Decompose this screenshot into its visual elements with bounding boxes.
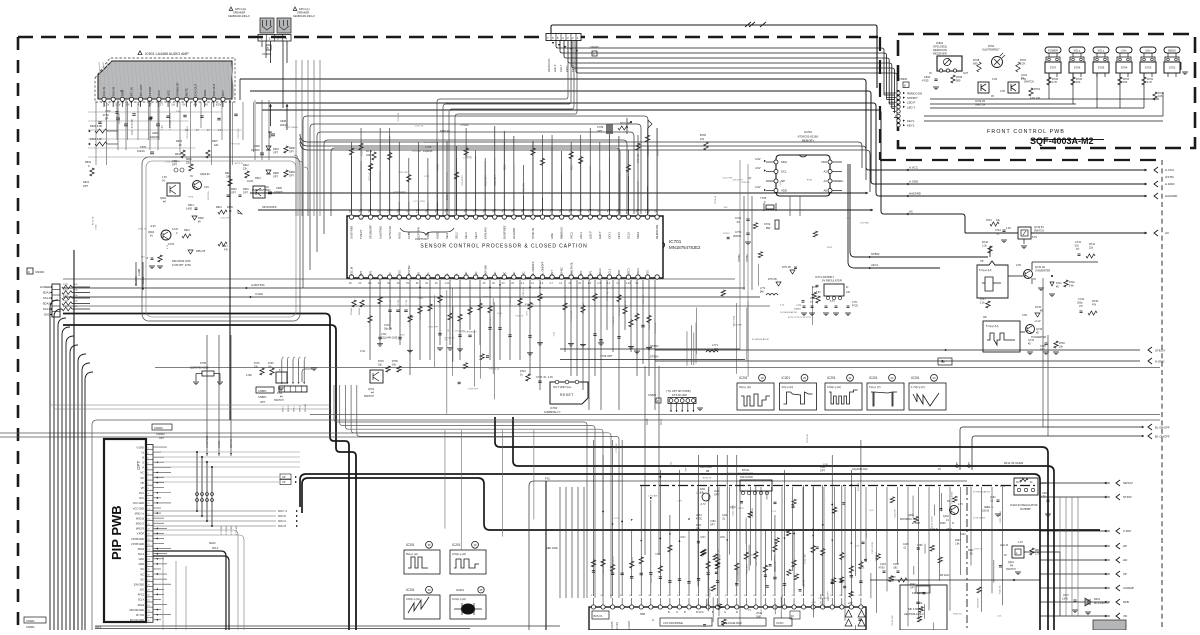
svg-text:22K: 22K [214, 144, 219, 147]
svg-text:OPT: OPT [820, 470, 825, 473]
svg-text:C609: C609 [276, 187, 282, 190]
svg-text:OPT: OPT [260, 400, 266, 404]
svg-text:D902: D902 [505, 164, 507, 170]
svg-text:SEL2: SEL2 [455, 232, 459, 239]
svg-text:C102: C102 [990, 497, 996, 499]
svg-text:S706: S706 [1074, 66, 1081, 70]
svg-text:C169: C169 [710, 521, 716, 523]
svg-text:VCC.GND: VCC.GND [133, 507, 144, 510]
svg-text:-0.8V: -0.8V [150, 225, 156, 228]
svg-text:R736 100: R736 100 [565, 295, 567, 305]
svg-text:D701: D701 [988, 44, 995, 48]
svg-text:CN901: CN901 [26, 625, 35, 629]
svg-text:CVBS: CVBS [407, 231, 411, 239]
svg-text:C134 .082: C134 .082 [892, 615, 894, 626]
svg-text:GND: GND [139, 563, 145, 566]
svg-text:ST813Y: ST813Y [1155, 349, 1166, 353]
svg-text:NC: NC [140, 573, 144, 576]
svg-text:1.4V: 1.4V [1018, 541, 1023, 544]
svg-text:C606: C606 [152, 132, 158, 135]
svg-text:F302: F302 [696, 525, 702, 527]
svg-text:SPC1 (H): SPC1 (H) [235, 7, 246, 11]
svg-text:SCL3: SCL3 [607, 268, 611, 275]
svg-text:SPEAKER: SPEAKER [297, 11, 309, 15]
svg-text:R: R [142, 467, 144, 470]
svg-text:X0: X0 [416, 272, 420, 276]
svg-text:0V: 0V [938, 468, 941, 471]
svg-text:L772 BW: L772 BW [733, 325, 743, 327]
svg-text:DEF GND: DEF GND [546, 546, 558, 550]
svg-text:S705: S705 [1098, 66, 1105, 70]
svg-text:100/16: 100/16 [794, 309, 801, 311]
svg-text:22k: 22k [366, 153, 371, 157]
svg-text:SVS/THE9: SVS/THE9 [350, 226, 354, 239]
svg-text:C105: C105 [903, 544, 909, 546]
svg-text:.47/50: .47/50 [878, 568, 885, 570]
svg-text:1/RE: 1/RE [550, 233, 554, 239]
svg-text:IC201: IC201 [739, 376, 748, 380]
svg-text:Y703 #5: Y703 #5 [515, 315, 524, 317]
svg-text:SP2.L: SP2.L [294, 405, 296, 412]
svg-text:RMB9.US: RMB9.US [560, 227, 564, 239]
svg-text:SQF-4003A-M2: SQF-4003A-M2 [1030, 136, 1094, 146]
svg-text:AGC.M: AGC.M [1000, 544, 1008, 547]
svg-text:VP: VP [141, 487, 145, 490]
svg-text:OPT: OPT [289, 175, 294, 178]
svg-text:X.RAY: X.RAY [1123, 529, 1132, 533]
svg-text:IN: IN [929, 72, 932, 75]
svg-text:0V: 0V [435, 283, 438, 285]
svg-text:R311: R311 [700, 489, 706, 491]
svg-text:D-VCC: D-VCC [696, 611, 704, 614]
svg-text:R: R [736, 611, 738, 614]
svg-text:K702: K702 [764, 222, 771, 226]
svg-text:C605: C605 [140, 146, 147, 149]
svg-text:G: G [142, 462, 144, 465]
svg-text:C603 100/16: C603 100/16 [187, 125, 189, 138]
svg-text:20: 20 [803, 376, 807, 380]
svg-text:IC201: IC201 [827, 376, 836, 380]
svg-text:8.5V: 8.5V [216, 103, 222, 107]
svg-text:S703: S703 [1145, 66, 1152, 70]
svg-text:SCL1: SCL1 [43, 296, 50, 300]
svg-text:VP: VP [1123, 572, 1127, 576]
svg-text:9V: 9V [947, 500, 950, 503]
svg-text:S-80845ALY-T: S-80845ALY-T [544, 410, 561, 414]
svg-text:REMOCON: REMOCON [933, 48, 947, 52]
svg-text:23: 23 [932, 376, 936, 380]
svg-text:D771 #5: D771 #5 [138, 228, 147, 230]
svg-text:C805 47/50: C805 47/50 [756, 554, 758, 566]
svg-text:SP.GND: SP.GND [305, 403, 307, 412]
svg-text:C107 01: C107 01 [804, 579, 806, 588]
svg-text:C708: C708 [438, 164, 440, 170]
svg-text:NW FILTER: NW FILTER [740, 476, 753, 479]
svg-text:OPT: OPT [83, 185, 89, 188]
svg-text:C712 .01: C712 .01 [835, 181, 845, 183]
svg-text:GQL2014-R22: GQL2014-R22 [852, 468, 868, 471]
svg-text:NC: NC [522, 272, 526, 276]
svg-text:C773 100/16: C773 100/16 [973, 518, 986, 520]
svg-text:SWITCH: SWITCH [364, 395, 374, 398]
svg-text:BP1: BP1 [579, 270, 583, 276]
svg-text:C717 33p CH: C717 33p CH [607, 287, 609, 301]
svg-text:45: 45 [480, 588, 483, 592]
svg-text:HP: HP [282, 475, 286, 479]
svg-text:MIX2.B: MIX2.B [278, 515, 286, 518]
svg-text:V-SEPA: V-SEPA [611, 621, 614, 630]
svg-text:GND: GND [756, 617, 761, 619]
svg-text:D771 #5: D771 #5 [483, 297, 492, 299]
svg-text:C133: C133 [880, 563, 886, 566]
svg-text:SCL4: SCL4 [138, 599, 145, 602]
svg-text:C712 .01: C712 .01 [463, 158, 473, 160]
svg-text:6.8k: 6.8k [1069, 285, 1074, 288]
svg-text:OPT: OPT [710, 525, 715, 527]
svg-text:OPT: OPT [172, 164, 177, 167]
svg-text:OPT: OPT [159, 436, 165, 440]
svg-text:B: B [436, 274, 440, 276]
svg-text:R726 1K: R726 1K [807, 433, 809, 442]
svg-text:C712 .01: C712 .01 [415, 125, 425, 127]
svg-text:MIX2.B: MIX2.B [136, 517, 144, 520]
svg-text:NC: NC [493, 272, 497, 276]
svg-text:VDD: VDD [781, 189, 787, 193]
svg-text:BL ON/OFF: BL ON/OFF [531, 261, 535, 275]
svg-text:D613 R619 C615: D613 R619 C615 [172, 260, 191, 263]
svg-text:RST: RST [550, 270, 554, 276]
svg-text:1000/25: 1000/25 [150, 136, 159, 139]
svg-text:D771 #5: D771 #5 [782, 267, 791, 269]
svg-text:2200/25: 2200/25 [274, 191, 283, 194]
svg-text:100/16: 100/16 [982, 511, 990, 513]
svg-text:L772 BW: L772 BW [860, 222, 870, 224]
svg-text:A.VCC: A.VCC [1165, 168, 1175, 172]
svg-text:30p CH: 30p CH [384, 328, 392, 331]
svg-text:R614: R614 [216, 206, 222, 209]
svg-text:14/50: 14/50 [186, 208, 193, 211]
svg-text:PIP PWB: PIP PWB [109, 505, 124, 560]
svg-text:A.VCC: A.VCC [142, 276, 145, 284]
svg-text:RESET: RESET [560, 393, 574, 397]
svg-text:ST86V: ST86V [650, 355, 659, 359]
svg-text:4.9V: 4.9V [855, 545, 860, 547]
svg-text:4.9V: 4.9V [746, 485, 751, 487]
svg-text:BL ON/OFF: BL ON/OFF [1155, 426, 1170, 430]
svg-text:19: 19 [760, 376, 764, 380]
svg-text:5-5V: 5-5V [1032, 236, 1037, 239]
svg-text:G: G [652, 619, 654, 622]
svg-text:L772 BW: L772 BW [412, 151, 422, 153]
svg-text:5V REGULATOR: 5V REGULATOR [973, 490, 990, 493]
svg-text:C773 100/16: C773 100/16 [285, 127, 298, 129]
svg-text:8Vp-p (H): 8Vp-p (H) [406, 552, 418, 556]
svg-text:3.9Vp-p (H): 3.9Vp-p (H) [827, 385, 841, 389]
svg-text:0V: 0V [1004, 555, 1007, 557]
svg-text:R791: R791 [63, 284, 69, 286]
svg-text:SDA3: SDA3 [636, 231, 640, 239]
svg-text:C841: C841 [924, 75, 931, 79]
svg-text:SWITCH: SWITCH [1006, 568, 1016, 571]
svg-text:R719 2.2k: R719 2.2k [500, 306, 502, 317]
svg-text:ST86V: ST86V [650, 344, 659, 348]
svg-text:R722 1k: R722 1k [208, 191, 210, 200]
svg-text:R726 1K: R726 1K [728, 473, 737, 475]
svg-text:R731: R731 [738, 508, 744, 510]
svg-text:IC702: IC702 [804, 130, 812, 134]
svg-text:R5C5083/1,-A/-T: R5C5083/1,-A/-T [900, 518, 918, 521]
svg-text:2F AMP: 2F AMP [912, 522, 921, 525]
svg-text:C719: C719 [406, 299, 408, 305]
svg-text:Y706 OPT: Y706 OPT [600, 354, 613, 358]
svg-text:SWITCH: SWITCH [274, 399, 284, 402]
svg-text:REMOCON: REMOCON [655, 225, 659, 239]
svg-text:4.9V: 4.9V [992, 78, 997, 81]
svg-text:10.8V: 10.8V [247, 180, 254, 183]
svg-text:CE0881/2D-04KL/2: CE0881/2D-04KL/2 [293, 15, 315, 18]
svg-text:L164: L164 [714, 491, 720, 493]
svg-text:IC201: IC201 [869, 376, 878, 380]
svg-text:V.POP.GND: V.POP.GND [131, 543, 144, 546]
svg-text:KAPL/FIX: KAPL/FIX [483, 227, 487, 239]
svg-text:C709: C709 [597, 125, 604, 129]
svg-text:R101 82: R101 82 [999, 585, 1001, 594]
svg-text:HAZARD: HAZARD [512, 228, 516, 239]
svg-text:C803 47/50: C803 47/50 [613, 556, 615, 568]
svg-text:NC: NC [140, 472, 144, 475]
svg-text:8.6: 8.6 [194, 103, 198, 107]
svg-text:IN: IN [1030, 482, 1033, 484]
svg-text:MIX2.Ys: MIX2.Ys [278, 510, 288, 513]
svg-text:SEL1: SEL1 [445, 232, 449, 239]
svg-text:ST86V: ST86V [745, 254, 749, 262]
svg-text:0V: 0V [126, 103, 129, 107]
svg-text:D734 #5: D734 #5 [619, 306, 621, 315]
svg-text:SP2.R: SP2.R [299, 405, 301, 412]
svg-text:R735 100k: R735 100k [655, 322, 657, 333]
svg-text:REMOCON: REMOCON [907, 92, 922, 96]
svg-text:R754: R754 [1034, 88, 1041, 91]
svg-text:C777: C777 [424, 176, 430, 178]
svg-text:SDA3: SDA3 [598, 268, 602, 276]
svg-text:IC201: IC201 [911, 376, 920, 380]
svg-text:C134: C134 [893, 563, 899, 566]
svg-text:5.6V: 5.6V [464, 125, 469, 127]
svg-text:1.6: 1.6 [171, 103, 175, 107]
svg-text:C709 OPT: C709 OPT [495, 175, 497, 186]
svg-text:LED.P: LED.P [553, 64, 557, 72]
svg-text:X301 503: X301 503 [632, 556, 634, 566]
svg-text:IC: IC [952, 523, 955, 525]
svg-text:5.6V: 5.6V [780, 180, 782, 185]
svg-text:L772 BW: L772 BW [648, 496, 658, 498]
svg-text:ANALOGUE RGB: ANALOGUE RGB [721, 621, 742, 625]
svg-text:R731: R731 [823, 464, 829, 466]
svg-text:R: R [684, 611, 686, 614]
svg-text:AVDD: AVDD [436, 232, 440, 239]
svg-text:NC: NC [512, 272, 516, 276]
svg-text:BTL OUT: BTL OUT [139, 84, 143, 96]
svg-text:VDD: VDD [617, 270, 621, 276]
svg-text:B1 ON/OFF: B1 ON/OFF [1155, 435, 1170, 439]
svg-text:C603 100/16: C603 100/16 [170, 112, 172, 125]
svg-text:4.9V: 4.9V [755, 166, 761, 170]
svg-text:A.GND: A.GND [138, 268, 141, 276]
svg-text:C714 OPT: C714 OPT [398, 172, 409, 174]
svg-text:100/16: 100/16 [137, 150, 145, 153]
svg-text:AFC2: AFC2 [138, 594, 145, 597]
svg-text:R955A: R955A [358, 308, 361, 315]
svg-text:A5C3: A5C3 [95, 626, 102, 629]
svg-text:A.FREE: A.FREE [40, 285, 50, 289]
svg-text:CAPTION: CAPTION [415, 237, 427, 241]
svg-text:C714 OPT: C714 OPT [722, 177, 733, 179]
svg-text:47/25 OPT .47/50: 47/25 OPT .47/50 [172, 264, 191, 267]
svg-text:V.POP: V.POP [137, 533, 145, 536]
svg-text:1Vp-p (V): 1Vp-p (V) [869, 385, 881, 389]
svg-text:9V.TU2: 9V.TU2 [136, 614, 145, 617]
svg-text:G602 #2: G602 #2 [200, 173, 210, 176]
svg-text:A.GND: A.GND [135, 276, 138, 284]
svg-text:H.GND: H.GND [1155, 360, 1164, 364]
svg-text:IC601 LA4485 AUDIO AMP: IC601 LA4485 AUDIO AMP [145, 52, 189, 56]
svg-text:0.7V: 0.7V [869, 510, 874, 512]
svg-text:OPT: OPT [846, 218, 851, 220]
svg-text:VP: VP [282, 480, 286, 484]
svg-text:/RSYNC: /RSYNC [407, 265, 411, 275]
svg-text:D771 #5: D771 #5 [369, 172, 371, 181]
svg-text:R755A: R755A [350, 308, 353, 315]
svg-text:0V: 0V [349, 283, 352, 285]
svg-text:R731: R731 [399, 335, 405, 337]
svg-text:C106: C106 [917, 545, 923, 547]
svg-text:0V: 0V [511, 283, 514, 285]
svg-text:R715: R715 [390, 150, 392, 156]
svg-text:RECEIVER: RECEIVER [933, 52, 947, 56]
svg-text:MIX2.R: MIX2.R [278, 525, 286, 528]
svg-text:NC: NC [140, 578, 144, 581]
svg-text:D609: D609 [227, 206, 233, 209]
svg-text:Q101: Q101 [943, 515, 950, 518]
svg-text:X1: X1 [388, 272, 392, 276]
svg-text:33V.GND: 33V.GND [134, 583, 144, 586]
svg-text:HAZARD: HAZARD [1165, 194, 1178, 198]
svg-text:IC771 AN7808-7: IC771 AN7808-7 [815, 275, 835, 279]
svg-text:C724: C724 [95, 224, 97, 230]
svg-text:0V: 0V [569, 283, 572, 285]
svg-text:MICOM.GND: MICOM.GND [130, 609, 145, 612]
svg-text:0V: 0V [425, 283, 428, 285]
svg-text:S707: S707 [1050, 66, 1057, 70]
svg-text:C860: C860 [700, 537, 706, 539]
svg-text:6.7V: 6.7V [830, 301, 835, 303]
svg-text:4.3V: 4.3V [360, 350, 365, 353]
svg-text:4.9V: 4.9V [755, 157, 761, 161]
svg-text:5V REGULATOR: 5V REGULATOR [780, 311, 797, 314]
svg-text:CE0881/2D-04KL/2: CE0881/2D-04KL/2 [228, 15, 250, 18]
svg-text:IC201: IC201 [452, 543, 461, 547]
svg-text:FSC: FSC [545, 477, 550, 481]
svg-text:.0022: .0022 [946, 529, 952, 531]
svg-text:VOL∧: VOL∧ [1073, 49, 1080, 53]
svg-text:IC201: IC201 [782, 376, 791, 380]
svg-text:CH∨: CH∨ [1145, 49, 1151, 53]
svg-text:CH1 OUT: CH1 OUT [212, 83, 216, 96]
svg-text:NC: NC [464, 272, 468, 276]
svg-text:R772 1K: R772 1K [232, 143, 241, 145]
svg-text:KEY2: KEY2 [571, 65, 575, 72]
svg-text:SDA3: SDA3 [209, 542, 216, 545]
svg-text:C714 OPT: C714 OPT [733, 180, 744, 182]
svg-text:FILTER: FILTER [616, 622, 619, 630]
svg-text:NY: NY [1076, 248, 1080, 251]
svg-text:VSS: VSS [397, 270, 401, 276]
svg-text:VCC: VCC [139, 497, 144, 500]
svg-text:VSS: VSS [646, 270, 650, 276]
svg-text:OUT: OUT [963, 72, 969, 75]
svg-text:L771: L771 [712, 343, 718, 347]
svg-text:CH2 IN: CH2 IN [111, 87, 115, 96]
svg-text:D613: D613 [255, 177, 261, 180]
svg-text:C110: C110 [722, 515, 728, 517]
svg-text:R: R [455, 274, 459, 276]
svg-text:LED.T: LED.T [907, 105, 915, 109]
svg-text:OPT: OPT [231, 192, 236, 195]
svg-text:FRONT CONTROL PWB: FRONT CONTROL PWB [987, 129, 1065, 135]
svg-text:IC703: IC703 [550, 406, 558, 410]
svg-text:4N7808P: 4N7808P [1020, 507, 1031, 511]
svg-text:R715: R715 [571, 164, 573, 170]
svg-text:A.GND: A.GND [1165, 182, 1175, 186]
svg-text:REMOCON: REMOCON [547, 58, 551, 72]
svg-text:CN30C: CN30C [35, 270, 44, 274]
svg-text:GND: GND [203, 90, 207, 96]
svg-text:ASC.M: ASC.M [350, 266, 354, 275]
svg-text:0.7V: 0.7V [497, 313, 502, 315]
svg-text:D811 #5: D811 #5 [651, 574, 653, 583]
svg-text:ST86V: ST86V [871, 252, 880, 256]
svg-text:200/16: 200/16 [733, 234, 742, 238]
svg-text:DEF.SW: DEF.SW [483, 265, 487, 276]
svg-text:D902: D902 [447, 194, 449, 200]
svg-text:MWLF/A3L: MWLF/A3L [569, 262, 573, 276]
svg-text:5V REGULATOR: 5V REGULATOR [822, 279, 842, 283]
svg-text:GL8YR5tRED7: GL8YR5tRED7 [982, 48, 1000, 52]
svg-text:TV/EXT: TV/EXT [359, 229, 363, 239]
svg-text:R731: R731 [670, 461, 672, 467]
svg-text:13.2V: 13.2V [172, 228, 179, 231]
svg-text:OPT: OPT [714, 495, 719, 497]
svg-text:CN002: CN002 [154, 426, 163, 430]
svg-text:0.8Vp-p (H): 0.8Vp-p (H) [406, 597, 420, 601]
svg-text:R732 1K: R732 1K [649, 321, 651, 330]
svg-text:39: 39 [427, 543, 431, 547]
svg-text:~0.1V: ~0.1V [1034, 320, 1041, 323]
svg-text:C133 .47/50: C133 .47/50 [932, 516, 934, 529]
svg-text:1.7Vp-p (V): 1.7Vp-p (V) [911, 385, 925, 389]
svg-text:KEY2: KEY2 [907, 124, 915, 128]
svg-text:VCC: VCC [166, 90, 170, 96]
svg-text:FILTER: FILTER [148, 87, 152, 96]
svg-text:5 Vp-p (H): 5 Vp-p (H) [986, 324, 999, 328]
svg-text:R731: R731 [827, 247, 833, 249]
svg-text:R726 1K: R726 1K [703, 478, 712, 480]
svg-text:C110 39: C110 39 [895, 509, 897, 518]
svg-text:NC: NC [474, 272, 478, 276]
svg-text:21: 21 [848, 376, 852, 380]
svg-text:R739 4.7k: R739 4.7k [523, 286, 525, 297]
svg-text:BP1: BP1 [369, 270, 373, 276]
